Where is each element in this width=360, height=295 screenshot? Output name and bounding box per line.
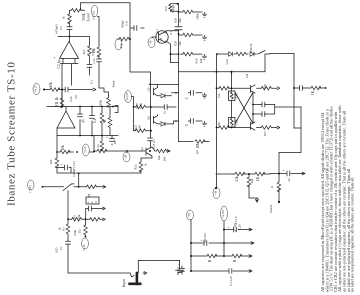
svg-text:+B: +B bbox=[124, 155, 128, 159]
svg-text:Tone: Tone bbox=[112, 80, 116, 87]
svg-text:1K: 1K bbox=[256, 176, 260, 181]
svg-text:C: C bbox=[185, 96, 189, 99]
svg-text:R: R bbox=[270, 186, 274, 188]
svg-text:15k: 15k bbox=[217, 122, 221, 127]
svg-text:0.1: 0.1 bbox=[169, 30, 173, 34]
svg-text:15k: 15k bbox=[217, 93, 221, 98]
svg-text:100 16V: 100 16V bbox=[203, 232, 207, 243]
svg-text:10k: 10k bbox=[77, 214, 81, 219]
svg-text:10k: 10k bbox=[157, 155, 161, 160]
svg-text:C: C bbox=[185, 123, 189, 126]
svg-text:4u: 4u bbox=[287, 178, 291, 182]
svg-text:45k: 45k bbox=[199, 58, 203, 63]
svg-text:4u: 4u bbox=[96, 144, 100, 148]
svg-text:C6: C6 bbox=[195, 150, 199, 154]
svg-text:C11: C11 bbox=[125, 20, 129, 25]
svg-text:Led: Led bbox=[225, 59, 229, 64]
svg-text:R11 1k: R11 1k bbox=[55, 97, 59, 108]
svg-text:C1: C1 bbox=[59, 246, 63, 250]
svg-text:R26: R26 bbox=[263, 84, 267, 90]
svg-text:43k: 43k bbox=[235, 176, 239, 182]
svg-text:R29: R29 bbox=[174, 41, 178, 47]
svg-text:+: + bbox=[283, 169, 285, 173]
svg-text:+: + bbox=[61, 163, 63, 167]
svg-text:51k: 51k bbox=[119, 43, 123, 48]
svg-text:R1: R1 bbox=[62, 227, 66, 231]
svg-text:C2: C2 bbox=[95, 200, 98, 204]
svg-text:45: 45 bbox=[82, 119, 86, 123]
svg-text:0.1: 0.1 bbox=[90, 80, 94, 84]
svg-text:+: + bbox=[106, 136, 108, 140]
svg-text:B: B bbox=[159, 38, 163, 40]
svg-text:C15 0.1: C15 0.1 bbox=[152, 139, 156, 149]
svg-text:+4.15: +4.15 bbox=[83, 146, 87, 153]
svg-text:(+4.15): (+4.15) bbox=[92, 11, 96, 20]
svg-text:+: + bbox=[53, 55, 56, 60]
svg-text:1k: 1k bbox=[144, 163, 148, 167]
svg-text:C12: C12 bbox=[92, 58, 96, 64]
svg-text:+9V: +9V bbox=[187, 211, 191, 217]
svg-text:C4: C4 bbox=[93, 119, 97, 123]
svg-text:(+4V): (+4V) bbox=[28, 185, 32, 192]
svg-text:10k: 10k bbox=[49, 82, 53, 88]
svg-text:Switch: Switch bbox=[269, 204, 273, 213]
svg-text:1u: 1u bbox=[163, 111, 167, 115]
svg-text:2k2: 2k2 bbox=[250, 178, 254, 183]
svg-text:B: B bbox=[208, 259, 212, 262]
svg-text:Level: Level bbox=[87, 13, 91, 21]
svg-text:10k: 10k bbox=[92, 48, 96, 54]
svg-text:CR2: CR2 bbox=[235, 119, 239, 125]
svg-text:Chrgd: Chrgd bbox=[171, 5, 175, 13]
svg-text:500k: 500k bbox=[196, 13, 200, 20]
svg-text:2k: 2k bbox=[102, 120, 106, 124]
svg-text:+: + bbox=[228, 226, 230, 230]
svg-text:B: B bbox=[233, 259, 237, 262]
svg-text:+4.15V: +4.15V bbox=[125, 91, 129, 101]
svg-text:+4.15V: +4.15V bbox=[221, 209, 225, 219]
svg-text:4u*: 4u* bbox=[113, 139, 117, 144]
svg-text:R27: R27 bbox=[263, 131, 267, 137]
svg-text:510k: 510k bbox=[139, 103, 143, 110]
svg-text:R2: R2 bbox=[78, 229, 82, 233]
svg-text:220: 220 bbox=[49, 159, 53, 164]
svg-text:Input: Input bbox=[122, 279, 126, 287]
svg-text:10k: 10k bbox=[138, 125, 142, 130]
svg-text:Q1: Q1 bbox=[155, 29, 159, 33]
svg-text:+4.15: +4.15 bbox=[83, 244, 86, 251]
svg-text:Battery: Battery bbox=[176, 266, 180, 275]
svg-text:R32: R32 bbox=[134, 164, 138, 170]
svg-text:no label are not-polarized cap: no label are not-polarized capacitor, al… bbox=[350, 177, 356, 292]
svg-text:C3: C3 bbox=[59, 26, 63, 30]
svg-text:1M: 1M bbox=[245, 74, 249, 79]
svg-text:1M: 1M bbox=[196, 143, 200, 149]
svg-text:510k: 510k bbox=[73, 230, 77, 237]
svg-text:C20: C20 bbox=[238, 224, 242, 230]
svg-text:R28: R28 bbox=[174, 18, 178, 24]
svg-text:1M: 1M bbox=[87, 194, 91, 199]
svg-text:500k: 500k bbox=[82, 13, 86, 20]
svg-text:a: a bbox=[87, 201, 90, 203]
svg-text:(470pF) C13: (470pF) C13 bbox=[72, 161, 76, 177]
svg-text:560: 560 bbox=[163, 156, 167, 161]
svg-text:Ibanez Tube Screamer TS-10: Ibanez Tube Screamer TS-10 bbox=[6, 61, 18, 206]
svg-text:+B: +B bbox=[149, 41, 153, 45]
svg-text:+4.15: +4.15 bbox=[34, 85, 38, 92]
svg-text:1k: 1k bbox=[62, 16, 66, 20]
svg-text:+B: +B bbox=[214, 191, 218, 195]
svg-text:10k: 10k bbox=[178, 41, 182, 46]
svg-text:b: b bbox=[91, 201, 94, 203]
svg-text:1K: 1K bbox=[311, 90, 315, 95]
svg-text:C: C bbox=[177, 263, 181, 265]
svg-text:500k: 500k bbox=[99, 100, 103, 107]
svg-text:Q2: Q2 bbox=[140, 147, 144, 151]
svg-text:C9: C9 bbox=[74, 95, 78, 99]
svg-text:0.1 C19: 0.1 C19 bbox=[229, 276, 233, 286]
svg-text:Q5: Q5 bbox=[147, 87, 151, 91]
svg-text:20k: 20k bbox=[178, 18, 182, 23]
svg-text:0.22: 0.22 bbox=[69, 96, 73, 102]
svg-text:2mm TL: 2mm TL bbox=[249, 43, 253, 54]
svg-text:CR1: CR1 bbox=[235, 92, 239, 98]
svg-text:47 16V: 47 16V bbox=[233, 222, 237, 232]
svg-text:10k: 10k bbox=[61, 145, 65, 151]
svg-text:Q6: Q6 bbox=[147, 116, 151, 120]
svg-text:4k7: 4k7 bbox=[82, 49, 86, 54]
svg-text:R31: R31 bbox=[164, 6, 168, 12]
svg-text:C2 1µ: C2 1µ bbox=[57, 60, 61, 69]
